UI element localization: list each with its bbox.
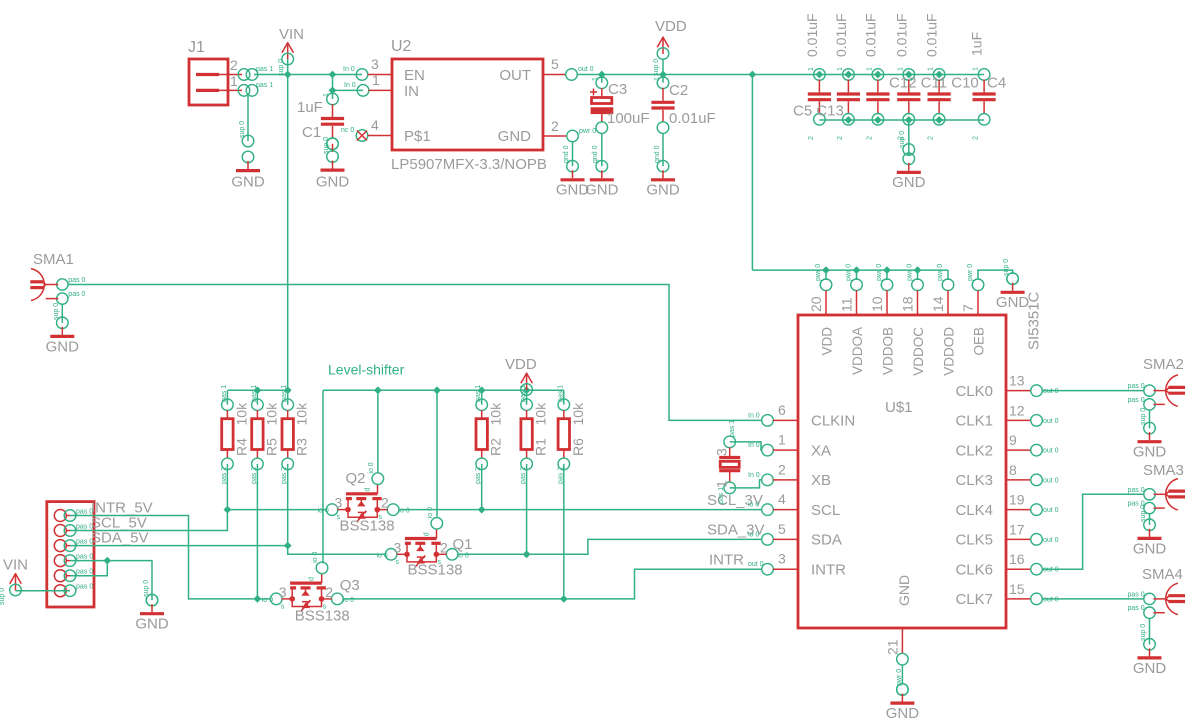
ground GND (SMA1 shield) [46,303,80,356]
wire net SCL (Q2 to U$1) [399,509,763,511]
wire net GND (U$1 pin21) [901,665,903,685]
pin 5 SDA of U$1 [748,521,842,549]
wire net CLK6 (to SMA3) [1042,494,1144,569]
wire net SCL_5V [70,510,327,531]
svg-text:15: 15 [1009,581,1025,597]
wire (R5 bottom to INTR_5V node) [256,464,258,599]
svg-text:11: 11 [839,297,855,312]
junction (INTR_5V / R5) [254,595,262,603]
junction (cap bottom rail x=939.1) [935,116,943,124]
pin 17 CLK5 of U$1 [955,521,1058,548]
svg-text:pas 1: pas 1 [520,385,527,402]
svg-text:VIN: VIN [279,26,304,43]
svg-text:1: 1 [897,67,904,71]
svg-text:3: 3 [778,551,786,567]
wire net VDD (pull-up rail right + gate lines) [323,390,564,563]
svg-text:BSS138: BSS138 [408,561,463,578]
svg-text:3: 3 [371,56,379,72]
svg-text:pas 1: pas 1 [221,385,228,402]
svg-text:1: 1 [837,67,844,71]
svg-text:6: 6 [778,402,786,418]
svg-text:SDA: SDA [811,532,842,549]
svg-text:10k: 10k [294,402,310,426]
svg-text:0.01uF: 0.01uF [804,13,820,57]
junction (VIN/vertical) [284,71,292,79]
svg-text:pas 1: pas 1 [718,487,725,504]
resistor R6 (10k) [557,385,586,484]
svg-text:R5: R5 [263,438,279,456]
svg-text:18: 18 [900,296,916,312]
resistor R4 (10k) [221,385,250,484]
junction (SCL / R2) [478,506,486,514]
svg-text:C1: C1 [302,124,321,141]
svg-text:SDA_5V: SDA_5V [91,530,149,547]
svg-text:SMA3: SMA3 [1143,462,1184,479]
svg-text:sup 0: sup 0 [278,59,285,76]
svg-text:SCL: SCL [811,502,840,519]
svg-text:XB: XB [811,472,831,489]
svg-text:nc 0: nc 0 [341,127,354,134]
svg-text:GND: GND [1133,660,1167,677]
svg-text:out 0: out 0 [1043,418,1059,425]
svg-text:In 0: In 0 [748,442,760,449]
svg-text:1uF: 1uF [297,99,323,116]
svg-text:pas 0: pas 0 [76,569,93,576]
junction (rail R1 top / VDD) [523,386,531,394]
svg-text:8: 8 [1009,462,1017,478]
junction (rail R5 top) [254,386,262,394]
junction (cap top rail x=819.4) [816,71,824,79]
svg-text:out 0: out 0 [1043,477,1059,484]
svg-text:INTR: INTR [709,552,744,569]
svg-text:pas 0: pas 0 [76,554,93,561]
svg-text:SMA1: SMA1 [33,251,74,268]
pin 10 VDDOB of U$1 [869,264,896,375]
wire net VIN (top row) [254,59,363,390]
pin 1 IN of U2 [344,72,392,96]
svg-text:3: 3 [714,448,730,456]
svg-text:1: 1 [973,67,980,71]
svg-text:pas 0: pas 0 [76,584,93,591]
svg-text:VDDOA: VDDOA [850,327,865,375]
svg-text:5: 5 [778,521,786,537]
svg-text:CLKIN: CLKIN [811,413,855,430]
capacitor C11 (0.01uF) [893,13,920,140]
wire (R1 bottom to SDA node) [526,464,528,554]
junction (VDD rail pin x=917.5) [914,266,922,274]
svg-text:pas 1: pas 1 [251,385,258,402]
junction (SCL_5V / R4) [224,506,232,514]
svg-text:2: 2 [551,118,559,134]
pin 8 CLK3 of U$1 [955,462,1058,489]
junction (C2 top) [659,71,667,79]
svg-text:BSS138: BSS138 [295,607,350,624]
ground GND (J1 pin1) [231,96,265,191]
svg-text:GND: GND [135,616,169,633]
connector header (5V I/O) [47,502,94,607]
svg-text:pwr 0: pwr 0 [967,264,974,281]
wire net GND (OEB pin7) [978,270,1013,279]
svg-text:LP5907MFX-3.3/NOPB: LP5907MFX-3.3/NOPB [391,156,547,173]
wire net INTR_5V [70,516,271,599]
svg-text:GND: GND [46,339,80,356]
svg-text:0.01uF: 0.01uF [669,110,716,127]
junction (SDA / R1) [523,550,531,558]
svg-text:1: 1 [928,67,935,71]
svg-text:GND: GND [498,128,532,145]
svg-text:pas 1: pas 1 [256,82,273,89]
pin 11 VDDOA of U$1 [839,264,866,375]
svg-text:2: 2 [928,136,935,140]
svg-text:Q1: Q1 [453,536,473,553]
svg-text:OUT: OUT [499,67,531,84]
svg-text:1: 1 [592,77,599,81]
svg-text:out 0: out 0 [1043,537,1059,544]
pin 14 VDDOD of U$1 [930,264,957,376]
svg-text:GND: GND [646,182,680,199]
svg-text:VDDOB: VDDOB [881,327,896,375]
pin 2 GND of U2 [543,118,596,142]
junction (VDD rail pin x=856.5) [853,266,861,274]
svg-text:C12 C11 C10: C12 C11 C10 [889,75,979,92]
wire net CLK0 (to SMA2) [1042,390,1144,392]
svg-text:In 0: In 0 [343,66,355,73]
svg-text:out 0: out 0 [748,561,764,568]
svg-text:7: 7 [960,304,976,312]
pin 12 CLK1 of U$1 [955,402,1058,429]
wire net VIN (pull-up rail left) [227,389,287,391]
svg-text:CLK2: CLK2 [955,442,993,459]
svg-text:OEB: OEB [972,327,987,356]
svg-text:pas 1: pas 1 [557,385,564,402]
svg-text:R2: R2 [488,438,504,456]
junction (rail Q2 gate) [374,386,382,394]
svg-text:Q3: Q3 [340,577,360,594]
pin 6 CLKIN of U$1 [748,402,855,430]
svg-text:sup 0: sup 0 [0,588,6,605]
svg-text:C4: C4 [987,75,1006,92]
svg-text:In 0: In 0 [748,472,760,479]
pin 20 VDD of U$1 [808,264,835,356]
svg-text:4: 4 [778,491,786,507]
wire net CLKIN (SMA1 to U$1) [68,285,762,421]
supply VDD (level shifter) [505,356,537,395]
ground GND (cap bank) [892,131,926,191]
svg-text:VDD: VDD [505,356,537,373]
ground GND (header) [135,580,169,633]
svg-text:CLK4: CLK4 [955,502,993,519]
svg-text:Q2: Q2 [346,470,366,487]
svg-text:GND: GND [896,575,912,606]
pin 18 VDDOC of U$1 [900,264,927,376]
junction (header gnd tie) [103,557,111,565]
svg-text:out 0: out 0 [1043,448,1059,455]
pin 13 CLK0 of U$1 [955,373,1058,400]
svg-text:Level-shifter: Level-shifter [328,362,405,378]
svg-text:2: 2 [230,57,238,73]
wire net GND (header pins 4+5) [70,561,152,601]
svg-text:2: 2 [973,136,980,140]
junction (cap top rail x=908.8) [905,71,913,79]
capacitor C1 [297,90,344,149]
svg-text:pwr 0: pwr 0 [815,264,822,281]
svg-text:sup 0: sup 0 [1140,624,1147,641]
pin 3 EN of U2 [343,56,392,80]
svg-text:gnd 0: gnd 0 [654,145,661,163]
svg-text:GND: GND [1133,444,1167,461]
junction (rail R3 top) [284,386,292,394]
junction (rail R2 top) [478,386,486,394]
svg-text:sup 0: sup 0 [239,121,246,138]
ground GND (SMA3) [1133,505,1167,558]
IC U2 voltage regulator [391,38,547,173]
wire (R6 bottom to INTR node) [563,464,565,599]
wire net SDA (Q1 to U$1) [458,539,763,554]
svg-text:10k: 10k [488,402,504,426]
svg-text:pas 1: pas 1 [281,385,288,402]
ground GND (C2) [646,133,680,199]
svg-text:CLK0: CLK0 [955,383,993,400]
svg-text:EN: EN [404,67,425,84]
svg-text:SMA2: SMA2 [1143,356,1184,373]
svg-text:C5 C13: C5 C13 [793,103,844,120]
transistor Q3 (BSS138) [262,552,360,625]
wire net VDD (bypass cap rail bottom to GND) [819,120,984,155]
wire net SDA_5V [70,546,386,555]
svg-text:1: 1 [654,77,661,81]
capacitor C2 (0.01uF) [651,75,715,134]
connector SMA2 [1128,356,1185,410]
svg-text:R4: R4 [233,438,249,456]
svg-text:0.01uF: 0.01uF [893,13,909,57]
svg-text:pwr 0: pwr 0 [876,264,883,281]
pin 21 GND of U$1 [885,628,909,686]
wire net VDD (U$1 top rail) [752,270,948,280]
svg-text:10k: 10k [570,402,586,426]
svg-text:gnd 0: gnd 0 [563,145,570,163]
svg-text:14: 14 [930,296,946,312]
svg-text:out 0: out 0 [1043,596,1059,603]
ground GND (U2 pin2) [556,142,590,199]
junction (VDD drop to U$1) [749,71,757,79]
pin 2 XB of U$1 [748,461,831,489]
ground GND (U$1) [886,684,920,722]
svg-text:2: 2 [837,136,844,140]
svg-text:VDD: VDD [820,327,835,356]
svg-text:GND: GND [585,182,619,199]
svg-text:SMA4: SMA4 [1142,566,1183,583]
junction (C3 top) [598,71,606,79]
svg-text:GND: GND [892,174,926,191]
pin 5 OUT of U2 [543,56,594,80]
svg-text:21: 21 [885,639,901,655]
junction (IN row) [329,87,337,95]
capacitor C12 (0.01uF) [862,13,889,140]
svg-text:R3: R3 [294,438,310,456]
svg-text:out 0: out 0 [1043,507,1059,514]
svg-text:GND: GND [316,174,350,191]
svg-text:VIN: VIN [3,557,28,574]
svg-text:out 0: out 0 [1043,388,1059,395]
svg-text:2: 2 [808,136,815,140]
connector SMA3 [1128,462,1185,514]
wire (R4 bottom to SCL_5V node) [226,464,228,510]
ground GND (C3) [585,133,619,199]
junction (VDD rail pin x=826) [822,266,830,274]
svg-text:GND: GND [996,294,1030,311]
crystal Y1 [714,420,741,504]
svg-text:10k: 10k [263,402,279,426]
svg-text:1: 1 [714,480,730,488]
svg-text:1: 1 [808,67,815,71]
svg-text:1: 1 [866,67,873,71]
svg-text:0.01uF: 0.01uF [924,13,940,57]
supply VIN (top) [278,26,304,76]
svg-text:INTR: INTR [811,561,846,578]
svg-text:19: 19 [1009,492,1025,508]
wire net INTR (Q3 to U$1) [344,569,763,599]
junction (rail Q1 gate) [433,386,441,394]
svg-text:pas 1: pas 1 [256,66,273,73]
svg-text:10: 10 [869,296,885,312]
capacitor C10 (0.01uF) [924,13,951,140]
svg-text:IN: IN [404,83,419,100]
svg-text:CLK3: CLK3 [955,472,993,489]
junction (cap top rail x=939.1) [935,71,943,79]
svg-text:GND: GND [1133,540,1167,557]
svg-text:sup 0: sup 0 [323,137,330,154]
svg-text:1: 1 [372,72,380,88]
svg-text:17: 17 [1009,521,1025,537]
svg-text:pwr 0: pwr 0 [937,264,944,281]
svg-text:pas 1: pas 1 [729,420,736,437]
resistor R3 (10k) [281,385,310,484]
svg-text:CLK6: CLK6 [955,561,993,578]
junction (C1 column top) [329,71,337,79]
svg-text:GND: GND [886,705,920,722]
capacitor C3 (polarized 100uF) [590,75,650,134]
wire (R3 bottom to SDA_5V node) [287,464,289,546]
junction (cap bottom rail x=877.9) [874,116,882,124]
connector SMA4 [1128,566,1185,618]
svg-text:VDD: VDD [655,18,687,35]
svg-text:io 0: io 0 [748,531,759,538]
supply VIN (header) [0,557,28,606]
pin 4 P$1 of U2 (nc) [341,117,392,141]
svg-text:R1: R1 [533,438,549,456]
svg-text:12: 12 [1009,402,1025,418]
svg-text:pwr 0: pwr 0 [846,264,853,281]
svg-text:9: 9 [1009,432,1017,448]
svg-text:10k: 10k [233,402,249,426]
svg-text:10k: 10k [533,402,549,426]
svg-text:20: 20 [808,296,824,312]
pin 7 OEB of U$1 [960,264,987,356]
svg-text:J1: J1 [188,39,205,56]
svg-text:out 0: out 0 [578,66,594,73]
svg-text:C2: C2 [669,82,688,99]
svg-text:io 0: io 0 [748,502,759,509]
svg-text:sup 0: sup 0 [653,59,660,76]
wire net XA (crystal to U$1) [730,442,762,450]
svg-text:pwr 0: pwr 0 [907,264,914,281]
svg-text:0.01uF: 0.01uF [833,13,849,57]
svg-text:16: 16 [1009,551,1025,567]
junction (VDD rail pin x=887) [883,266,891,274]
svg-text:CLK1: CLK1 [955,413,993,430]
svg-text:gnd 0: gnd 0 [592,145,599,163]
svg-text:P$1: P$1 [404,128,431,145]
ground GND (OEB) [996,259,1030,311]
capacitor C13 (0.01uF) [833,13,860,140]
capacitor C4 (1uF) [969,32,996,140]
svg-text:1uF: 1uF [969,32,985,56]
wire net XB (crystal to U$1) [730,480,762,488]
svg-text:CLK5: CLK5 [955,532,993,549]
svg-text:100uF: 100uF [607,110,650,127]
svg-text:GND: GND [231,174,265,191]
svg-text:U$1: U$1 [885,399,913,416]
svg-text:0.01uF: 0.01uF [862,13,878,57]
svg-text:pas 1: pas 1 [475,385,482,402]
svg-text:R6: R6 [570,438,586,456]
svg-text:5: 5 [551,56,559,72]
svg-text:sup 0: sup 0 [899,131,906,148]
svg-text:out 0: out 0 [1043,567,1059,574]
svg-text:U2: U2 [391,38,412,55]
wire net CLK7 (to SMA4) [1042,598,1144,600]
svg-text:VDDOD: VDDOD [942,327,957,376]
op-amp U$1 (Si5351C clock generator) [798,315,1006,628]
wire net VIN (to header pin6) [16,590,71,592]
pin 1 XA of U$1 [748,432,831,460]
pin 15 CLK7 of U$1 [955,581,1058,608]
supply VDD (top) [653,18,687,76]
transistor Q2 (BSS138) [318,462,410,534]
svg-text:In 0: In 0 [344,82,356,89]
svg-text:2: 2 [778,461,786,477]
svg-text:VDDOC: VDDOC [911,327,926,376]
junction (cap bottom rail x=908.8) [905,116,913,124]
junction (cap bottom rail x=848.4) [845,116,853,124]
junction (INTR / R6) [560,595,568,603]
resistor R2 (10k) [475,385,504,484]
svg-text:2: 2 [866,136,873,140]
transistor Q1 (BSS138) [377,507,473,578]
svg-text:C3: C3 [608,81,627,98]
pin 9 CLK2 of U$1 [955,432,1058,459]
svg-text:1: 1 [323,93,330,97]
resistor R5 (10k) [251,385,280,484]
svg-text:sup 0: sup 0 [1140,408,1147,425]
svg-text:In 0: In 0 [748,412,760,419]
svg-text:4: 4 [371,117,379,133]
capacitor C5 (0.01uF) [804,13,831,140]
junction (SDA_5V / R3) [284,542,292,550]
pin 19 CLK4 of U$1 [955,492,1058,519]
resistor R1 (10k) [520,385,549,484]
ground GND (SMA4) [1133,618,1167,677]
svg-text:1: 1 [230,73,238,89]
wire (R2 bottom to SCL node) [481,464,483,510]
svg-text:XA: XA [811,442,831,459]
wire net VDD (3.3V rail top) [577,59,984,270]
connector SMA1 [30,251,85,304]
svg-text:BSS138: BSS138 [340,518,395,535]
svg-text:13: 13 [1009,373,1025,389]
connector J1 [188,39,273,105]
ground GND (SMA2) [1133,408,1167,461]
